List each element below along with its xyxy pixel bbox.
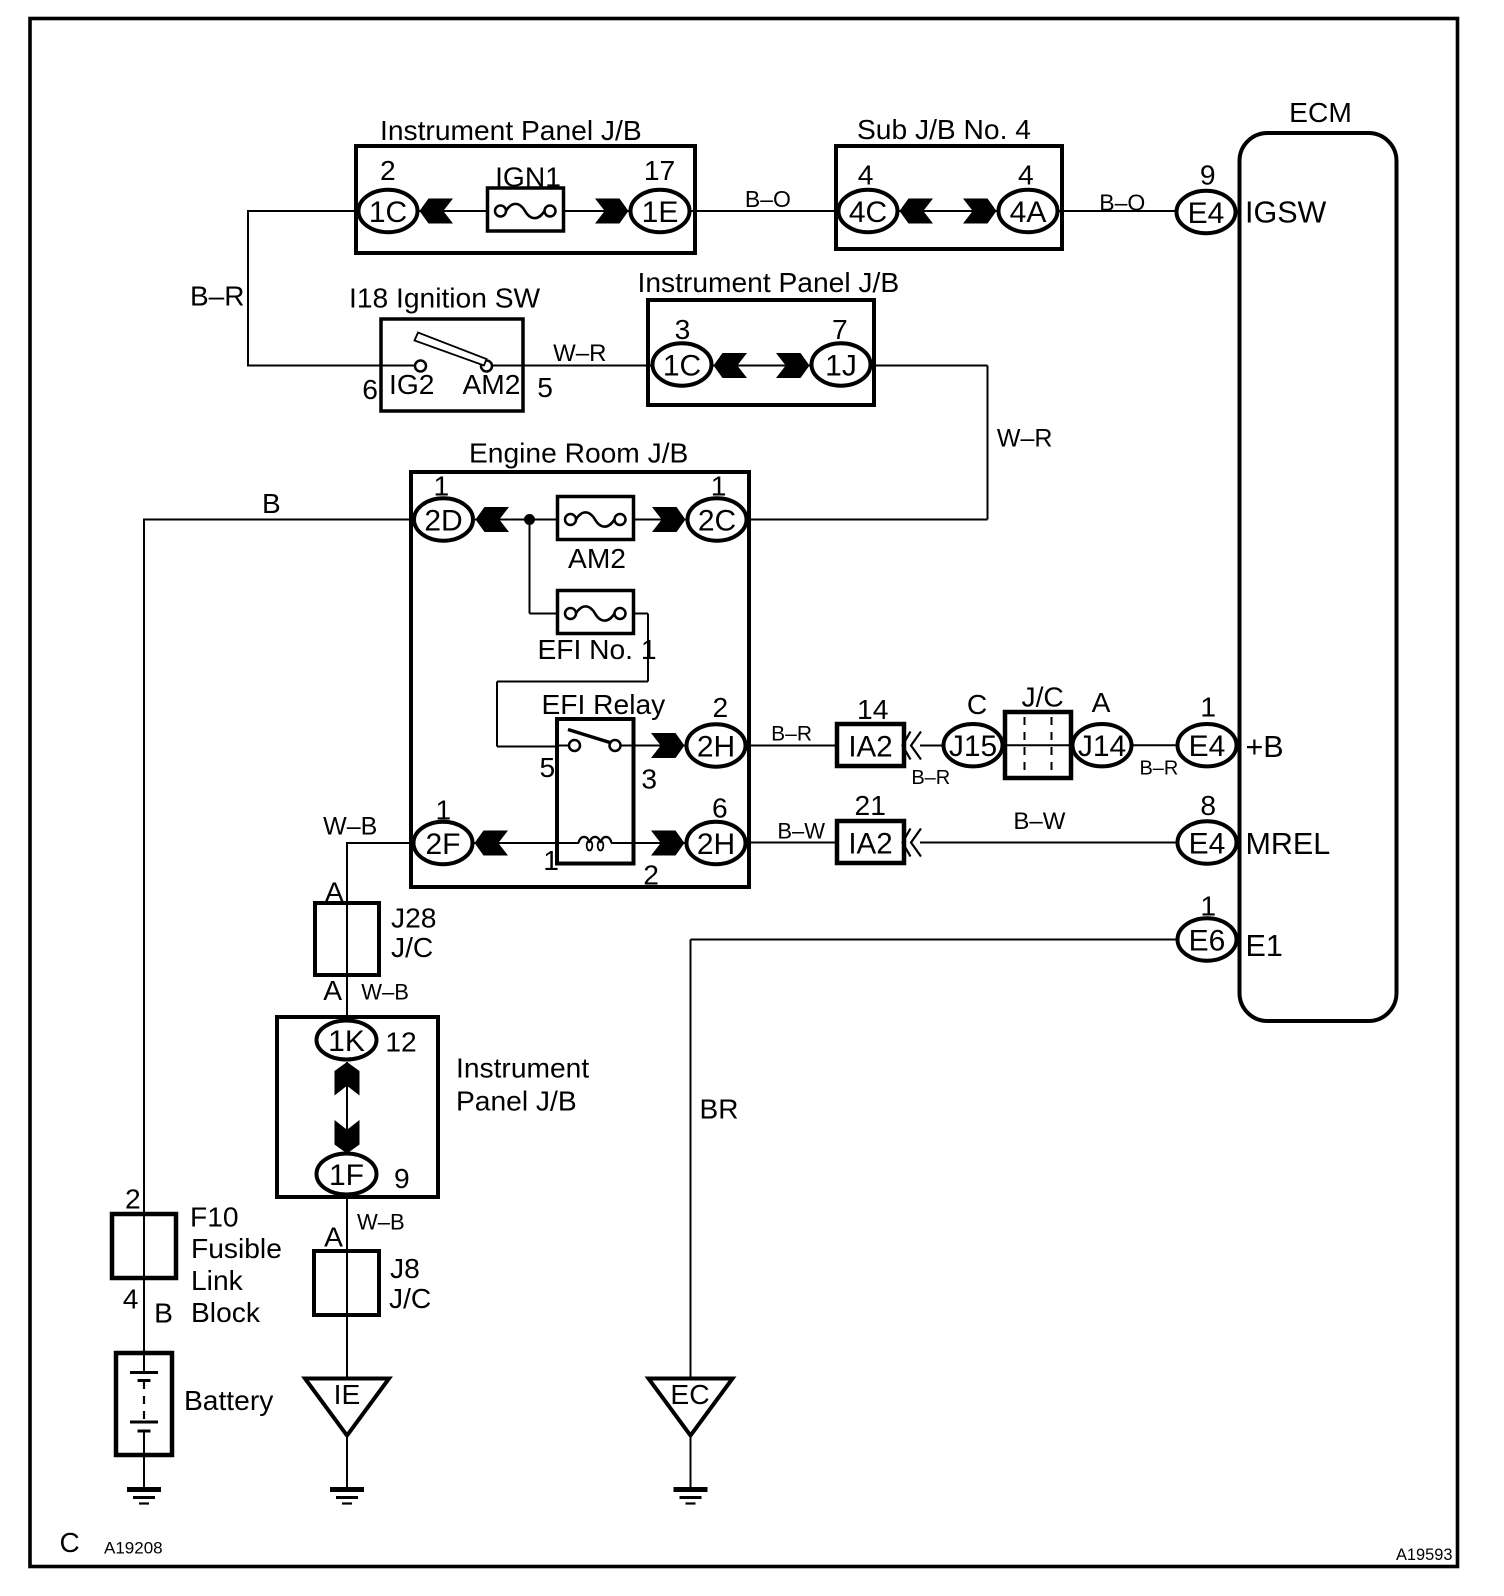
svg-text:A: A xyxy=(325,876,344,908)
svg-text:J15: J15 xyxy=(949,730,997,763)
wire 2F arrow to relay coil xyxy=(474,842,558,844)
svg-text:B–W: B–W xyxy=(777,819,825,844)
svg-text:2: 2 xyxy=(125,1183,141,1215)
svg-text:Engine Room J/B: Engine Room J/B xyxy=(469,437,688,469)
terminal 2D xyxy=(414,498,473,540)
svg-text:1E: 1E xyxy=(642,196,679,229)
svg-text:1: 1 xyxy=(1200,691,1216,723)
wire W-B vertical through J28 to 1K xyxy=(346,842,348,1018)
svg-text:4: 4 xyxy=(1018,159,1034,191)
wire battery to ground xyxy=(143,1431,145,1488)
ground symbol battery xyxy=(127,1490,161,1504)
svg-text:ECM: ECM xyxy=(1289,96,1352,128)
svg-text:B–R: B–R xyxy=(190,281,244,312)
terminal 1E xyxy=(631,190,690,232)
wire B vertical to F10 xyxy=(143,520,145,1373)
wire 4A to E4 IGSW (B-O) xyxy=(1059,210,1175,212)
arrow into 2C xyxy=(652,507,686,532)
svg-text:E4: E4 xyxy=(1189,730,1226,763)
svg-text:E4: E4 xyxy=(1188,197,1225,230)
wire junction to fuse EFI No. 1 left xyxy=(530,613,559,615)
wire 2H to IA2 14 (B-R) xyxy=(747,745,838,747)
svg-text:+B: +B xyxy=(1246,730,1284,764)
wire chevron to J15 xyxy=(920,745,942,747)
svg-text:2D: 2D xyxy=(424,505,462,538)
terminal 2H pin 6 xyxy=(687,822,746,864)
fuse AM2 xyxy=(558,497,634,540)
wire B-R to ignition switch xyxy=(247,365,381,367)
wire B horizontal to 2D xyxy=(143,519,412,521)
svg-text:2: 2 xyxy=(713,691,729,723)
wire BR vertical to EC ground xyxy=(690,940,692,1380)
J/C internal dashed line right xyxy=(1051,717,1053,773)
svg-text:4A: 4A xyxy=(1010,196,1047,229)
svg-text:W–B: W–B xyxy=(361,980,409,1005)
terminal E6 pin 1 (E1) xyxy=(1178,918,1237,960)
junction block Instrument Panel J/B (middle) xyxy=(648,300,874,405)
svg-text:A: A xyxy=(323,974,342,1006)
svg-text:Link: Link xyxy=(191,1264,244,1296)
svg-text:4: 4 xyxy=(858,159,874,191)
wire ignition SW to 1C (W-R) xyxy=(523,365,651,367)
junction connector J14 xyxy=(1073,724,1132,766)
svg-text:J/C: J/C xyxy=(391,931,433,963)
svg-text:EC: EC xyxy=(670,1378,709,1410)
terminal 2F xyxy=(414,822,473,864)
svg-text:1C: 1C xyxy=(663,350,701,383)
svg-text:E4: E4 xyxy=(1189,828,1226,861)
terminal 1C (Instrument Panel J/B middle) xyxy=(653,343,712,385)
junction block Instrument Panel J/B (top) xyxy=(356,146,695,253)
svg-text:B: B xyxy=(154,1297,173,1329)
svg-text:1: 1 xyxy=(436,794,452,826)
ground symbol EC xyxy=(674,1490,708,1504)
svg-text:21: 21 xyxy=(855,789,886,821)
junction connector J8 box xyxy=(314,1251,379,1315)
arrow into 4C xyxy=(900,199,934,224)
arrow down inside Instrument Panel J/B lower xyxy=(335,1120,360,1154)
wire fuse EFI No. 1 right stub xyxy=(633,613,648,615)
arrow into 1J xyxy=(776,353,810,378)
junction connector J28 box xyxy=(315,903,379,975)
switch I18 lever xyxy=(415,333,487,366)
svg-text:AM2: AM2 xyxy=(568,542,626,574)
svg-text:A19593: A19593 xyxy=(1396,1546,1453,1564)
wire relay to 2H arrow lower xyxy=(633,842,685,844)
battery cell plates xyxy=(130,1373,158,1432)
svg-text:IA2: IA2 xyxy=(848,828,892,861)
svg-text:F10: F10 xyxy=(190,1201,239,1233)
svg-text:5: 5 xyxy=(539,751,555,783)
terminal 2C xyxy=(688,498,747,540)
svg-text:1: 1 xyxy=(543,844,559,876)
wire 1E to 4C (B-O) xyxy=(691,210,837,212)
svg-text:IGSW: IGSW xyxy=(1245,196,1327,230)
svg-text:12: 12 xyxy=(385,1026,416,1058)
svg-text:3: 3 xyxy=(641,763,657,795)
relay EFI Relay box xyxy=(557,719,634,864)
svg-text:EFI No. 1: EFI No. 1 xyxy=(537,633,656,665)
svg-text:IA2: IA2 xyxy=(848,731,892,764)
wire EFI No. 1 down segment xyxy=(647,614,649,682)
svg-text:W–B: W–B xyxy=(323,813,377,841)
svg-text:Sub J/B No. 4: Sub J/B No. 4 xyxy=(857,113,1031,145)
arrow into 1E xyxy=(595,199,629,224)
terminal 4A xyxy=(999,190,1058,232)
terminal 2H pin 2 xyxy=(687,724,746,766)
svg-text:2F: 2F xyxy=(425,828,460,861)
svg-text:2: 2 xyxy=(380,154,396,186)
fuse IGN1 xyxy=(488,188,564,231)
arrow up inside Instrument Panel J/B lower xyxy=(335,1062,360,1096)
svg-text:9: 9 xyxy=(1200,159,1216,191)
svg-text:17: 17 xyxy=(644,154,675,186)
svg-text:J14: J14 xyxy=(1078,730,1126,763)
svg-text:Battery: Battery xyxy=(184,1384,274,1416)
arrow into 2H pin 6 xyxy=(651,831,685,856)
wire 2F to J28 corner (W-B) xyxy=(347,842,412,844)
wire B-R vertical xyxy=(247,210,249,366)
connector chevrons at IA2 14 xyxy=(903,732,922,760)
terminal 1F xyxy=(317,1154,377,1195)
svg-text:Block: Block xyxy=(191,1296,261,1328)
svg-text:B–O: B–O xyxy=(745,186,791,212)
svg-text:AM2: AM2 xyxy=(463,368,521,400)
svg-text:4: 4 xyxy=(123,1283,139,1315)
wire down to relay contact level xyxy=(496,682,498,747)
svg-text:W–R: W–R xyxy=(553,340,606,367)
junction block Sub J/B No. 4 xyxy=(836,146,1062,249)
wire relay contact to right edge xyxy=(621,745,635,747)
switch I18 contact AM2 xyxy=(481,361,492,372)
svg-text:B–O: B–O xyxy=(1099,190,1145,216)
J/C internal dashed line left xyxy=(1024,717,1026,773)
wire E6 to EC corner (E1) xyxy=(691,939,1177,941)
arrow into 2F xyxy=(475,831,509,856)
wire EC triangle to ground xyxy=(690,1434,692,1488)
switch I18 contact IG2 xyxy=(415,361,426,372)
svg-text:Panel J/B: Panel J/B xyxy=(456,1085,577,1117)
wire between 4C and 4A arrows xyxy=(899,210,997,212)
svg-text:2: 2 xyxy=(643,859,659,891)
wire through J/C box xyxy=(1004,744,1072,746)
svg-text:E1: E1 xyxy=(1246,929,1283,963)
connector chevrons at IA2 21 xyxy=(903,829,922,857)
switch I18 Ignition SW box xyxy=(381,319,523,411)
fuse EFI No. 1 xyxy=(558,591,634,634)
svg-text:J/C: J/C xyxy=(1022,681,1064,713)
connector IA2 pin 14 box xyxy=(837,724,904,766)
arrow into 1C xyxy=(420,199,454,224)
svg-text:6: 6 xyxy=(712,792,728,824)
wire 2D arrow to fuse AM2 with junction xyxy=(475,519,558,521)
wire fuse AM2 to 2C arrow xyxy=(633,519,686,521)
svg-text:1J: 1J xyxy=(825,350,857,383)
wire IE triangle to ground xyxy=(346,1434,348,1488)
wire corner to 2C xyxy=(748,519,988,521)
wire AM2 contact to ign box right xyxy=(492,365,524,367)
svg-text:1: 1 xyxy=(434,470,450,502)
ECM module outline xyxy=(1240,133,1397,1021)
wire arrow to fuse IGN1 xyxy=(420,210,489,212)
svg-text:A19208: A19208 xyxy=(104,1539,163,1558)
relay contact left pin 5 xyxy=(569,740,580,751)
wire between 1K and 1F xyxy=(346,1062,348,1152)
node junction at AM2/EFI No.1 split xyxy=(524,514,535,525)
fusible link F10 box xyxy=(112,1214,176,1278)
svg-text:7: 7 xyxy=(832,313,848,345)
svg-text:E6: E6 xyxy=(1189,925,1226,958)
wire fuse IGN1 to 1E arrow xyxy=(563,210,629,212)
wire 2H to IA2 21 (B-W) xyxy=(747,842,838,844)
wire coil to relay right xyxy=(611,842,634,844)
svg-text:J8: J8 xyxy=(390,1252,420,1284)
junction block Instrument Panel J/B (lower) xyxy=(277,1017,438,1197)
relay coil xyxy=(579,837,612,851)
arrow into 2H pin 2 xyxy=(651,733,685,758)
terminal 1J xyxy=(812,343,871,385)
svg-text:6: 6 xyxy=(362,373,378,405)
svg-text:W–R: W–R xyxy=(997,425,1053,453)
svg-text:B–W: B–W xyxy=(1013,808,1065,835)
svg-text:9: 9 xyxy=(394,1162,410,1194)
arrow into 2D xyxy=(476,507,510,532)
wire chevron to E4 MREL (B-W) xyxy=(920,842,1176,844)
wire EFI No. 1 across segment xyxy=(497,681,648,683)
svg-text:Instrument Panel J/B: Instrument Panel J/B xyxy=(638,266,900,298)
svg-text:A: A xyxy=(324,1221,343,1253)
svg-text:3: 3 xyxy=(675,313,691,345)
terminal 1C (Instrument Panel J/B top) xyxy=(359,190,418,232)
wire W-R vertical xyxy=(987,366,989,520)
svg-text:MREL: MREL xyxy=(1246,827,1331,861)
wire between 1C and 1J arrows xyxy=(713,365,810,367)
svg-text:5: 5 xyxy=(537,371,553,403)
svg-text:I18 Ignition SW: I18 Ignition SW xyxy=(349,282,541,314)
svg-text:EFI Relay: EFI Relay xyxy=(542,688,667,720)
wire relay left to coil xyxy=(557,842,579,844)
svg-text:IGN1: IGN1 xyxy=(495,161,561,193)
arrow into 4A xyxy=(963,199,997,224)
wire 1C to B-R corner xyxy=(248,210,357,212)
svg-text:1C: 1C xyxy=(369,196,407,229)
svg-text:2H: 2H xyxy=(697,828,735,861)
svg-text:2H: 2H xyxy=(697,731,735,764)
svg-text:Instrument Panel J/B: Instrument Panel J/B xyxy=(380,114,642,146)
svg-text:J28: J28 xyxy=(391,902,436,934)
svg-text:1: 1 xyxy=(1200,890,1216,922)
svg-text:IG2: IG2 xyxy=(389,368,434,400)
wire relay left edge to contact xyxy=(557,745,569,747)
wire junction down to fuse EFI No. 1 xyxy=(529,520,531,614)
svg-text:BR: BR xyxy=(700,1094,739,1125)
connector IA2 pin 21 box xyxy=(837,821,904,863)
svg-text:B: B xyxy=(262,488,281,519)
terminal E4 pin 9 (IGSW) xyxy=(1177,191,1236,233)
junction block Engine Room J/B xyxy=(411,472,749,887)
svg-text:C: C xyxy=(60,1527,80,1558)
arrow into 1C middle xyxy=(714,353,748,378)
svg-text:Fusible: Fusible xyxy=(191,1232,282,1264)
wire 1J to corner (W-R) xyxy=(872,365,988,367)
battery box xyxy=(116,1353,172,1455)
wire relay to 2H arrow xyxy=(633,745,685,747)
terminal 1K xyxy=(317,1021,377,1060)
svg-text:J/C: J/C xyxy=(389,1282,431,1314)
ground triangle IE xyxy=(305,1378,389,1436)
terminal E4 pin 1 (+B) xyxy=(1178,724,1237,766)
relay contact right pin 3 xyxy=(610,740,621,751)
svg-text:1K: 1K xyxy=(328,1025,365,1058)
svg-text:14: 14 xyxy=(857,693,888,725)
ground symbol IE xyxy=(330,1490,364,1504)
junction connector J/C box xyxy=(1005,712,1071,778)
wire into EFI relay switch xyxy=(497,746,558,748)
ground triangle EC xyxy=(649,1378,733,1436)
svg-text:1: 1 xyxy=(711,470,727,502)
svg-text:A: A xyxy=(1092,686,1111,718)
relay lever xyxy=(568,730,612,744)
battery cell dashed link xyxy=(143,1381,145,1421)
wire J14 to E4 +B (B-R) xyxy=(1132,744,1176,746)
wire ign box left to IG2 contact xyxy=(381,365,416,367)
svg-text:B–R: B–R xyxy=(1139,758,1178,780)
svg-text:2C: 2C xyxy=(698,505,736,538)
terminal 4C xyxy=(839,190,898,232)
svg-text:Instrument: Instrument xyxy=(456,1052,589,1084)
svg-text:1F: 1F xyxy=(329,1159,364,1192)
svg-text:IE: IE xyxy=(334,1378,361,1410)
svg-text:W–B: W–B xyxy=(357,1210,405,1235)
svg-text:8: 8 xyxy=(1200,789,1216,821)
svg-text:4C: 4C xyxy=(849,196,887,229)
svg-text:B–R: B–R xyxy=(911,767,950,789)
svg-text:B–R: B–R xyxy=(771,723,812,746)
terminal E4 pin 8 (MREL) xyxy=(1178,821,1237,863)
junction connector J15 xyxy=(944,724,1003,766)
svg-text:C: C xyxy=(967,688,987,720)
wire 1F through J8 to IE ground xyxy=(346,1196,348,1379)
